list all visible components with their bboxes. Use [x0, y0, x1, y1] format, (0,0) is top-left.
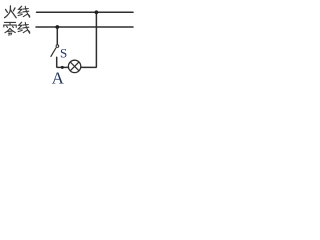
label xian (wire) character of 零线: [18, 22, 30, 33]
wire neutral line: [36, 26, 133, 28]
svg-text:A: A: [52, 68, 65, 86]
switch S pivot circle: [56, 45, 59, 48]
label ling (zero) character of 零线: [4, 22, 16, 35]
wire live line: [37, 11, 134, 13]
node A terminal dot: [61, 66, 64, 69]
label xian (wire) character of 火线: [18, 6, 30, 17]
wire lamp right to live line: [81, 12, 97, 67]
label huo (fire) character of 火线: [5, 6, 17, 18]
wire switch drop from neutral: [56, 27, 58, 44]
lamp cross stroke 2: [70, 62, 79, 71]
node junction on live line: [95, 10, 99, 14]
lamp circle: [68, 60, 80, 72]
switch S blade: [51, 48, 56, 56]
wire switch bottom to corner: [57, 57, 69, 67]
node junction on neutral line: [55, 25, 59, 29]
svg-text:S: S: [60, 45, 67, 60]
lamp cross stroke 1: [70, 62, 79, 71]
